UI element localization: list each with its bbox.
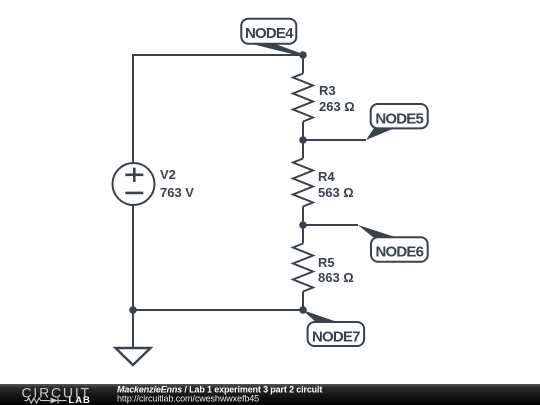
- svg-text:NODE7: NODE7: [312, 329, 360, 346]
- svg-text:R4: R4: [318, 169, 335, 184]
- junction dot at NODE7: [299, 306, 307, 314]
- wire: NODE4 junction down to R3: [302, 55, 304, 74]
- wire: R5 to NODE7 junction: [302, 292, 304, 311]
- svg-text:NODE6: NODE6: [375, 244, 423, 261]
- junction dot at NODE5: [299, 136, 307, 144]
- svg-text:R3: R3: [319, 83, 336, 98]
- wire: NODE5 stub: [303, 139, 366, 141]
- svg-text:263 Ω: 263 Ω: [319, 99, 355, 114]
- wire: from V2 negative terminal down to bottom rail: [132, 205, 134, 310]
- resistor R4: [293, 159, 313, 207]
- label R4 value: [318, 169, 354, 200]
- label R5 value: [318, 255, 354, 285]
- node NODE7: [303, 310, 365, 346]
- wire: R4 to NODE6 junction: [302, 207, 304, 226]
- junction dot at ground corner: [129, 306, 137, 314]
- wire: ground stem: [132, 310, 134, 348]
- label V2 value: [160, 167, 194, 200]
- wire: left vertical from top wire down to V2 positive terminal: [132, 54, 134, 163]
- node NODE5: [366, 104, 428, 140]
- wire: bottom horizontal rail: [133, 309, 303, 311]
- wire: R3 to NODE5 junction: [302, 122, 304, 141]
- svg-text:763 V: 763 V: [160, 185, 194, 200]
- svg-text:863 Ω: 863 Ω: [318, 270, 354, 285]
- wire: top horizontal from V2 branch to NODE4 junction: [133, 54, 303, 56]
- svg-text:R5: R5: [318, 255, 335, 270]
- ground: [116, 348, 151, 365]
- wire: NODE6 junction down to R5: [302, 225, 304, 244]
- svg-text:NODE5: NODE5: [375, 111, 423, 128]
- node NODE4: [241, 19, 303, 57]
- node NODE6: [358, 225, 428, 262]
- svg-text:http://circuitlab.com/cweshwwx: http://circuitlab.com/cweshwwxefb45: [117, 393, 259, 403]
- resistor R3: [293, 74, 313, 122]
- junction dot at NODE6: [299, 221, 307, 229]
- svg-text:563 Ω: 563 Ω: [318, 185, 354, 200]
- voltage source V2: [113, 163, 155, 205]
- svg-text:LAB: LAB: [69, 395, 91, 405]
- wire: NODE5 junction down to R4: [302, 140, 304, 159]
- svg-text:V2: V2: [160, 167, 176, 182]
- label R3 value: [319, 83, 355, 114]
- junction dot at NODE4: [299, 51, 307, 59]
- resistor R5: [293, 244, 313, 292]
- svg-text:NODE4: NODE4: [245, 25, 294, 42]
- wire: NODE6 stub: [303, 224, 358, 226]
- CircuitLab logo: [22, 384, 91, 405]
